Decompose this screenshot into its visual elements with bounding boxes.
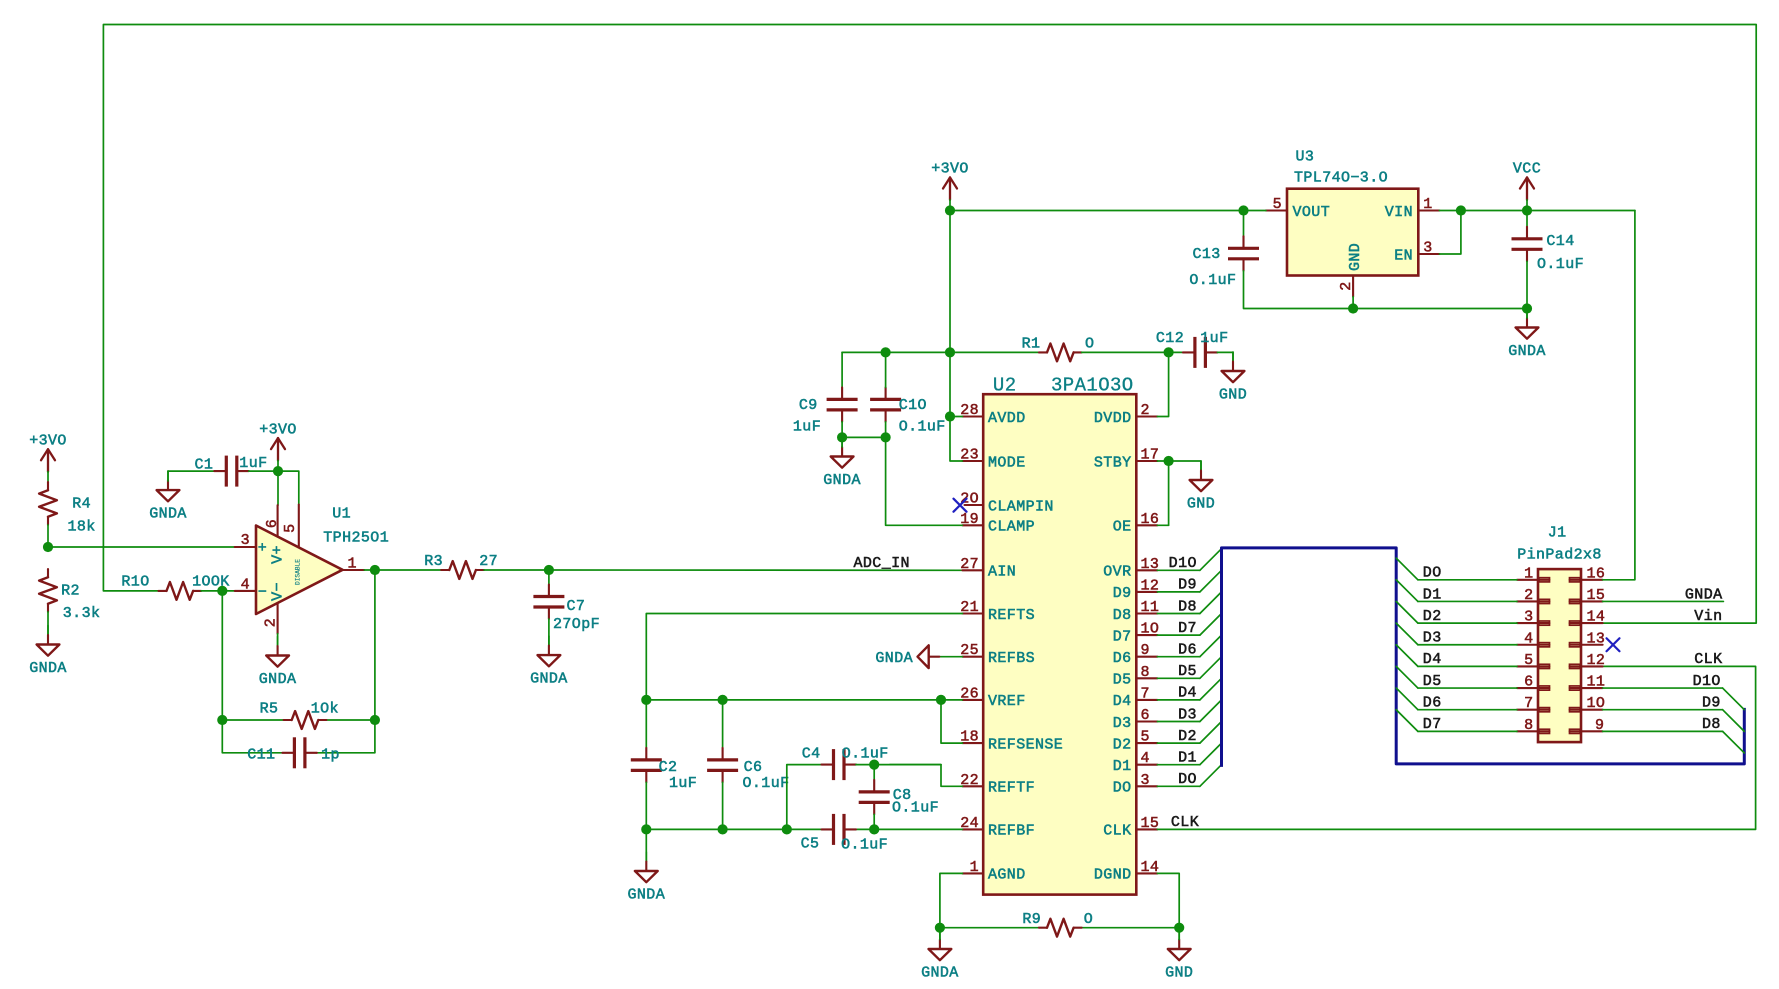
- regulator U3 TPL740-3.0 body: [1287, 148, 1418, 275]
- svg-text:5: 5: [1524, 652, 1533, 669]
- wire +3V0 to VOUT rail: [950, 210, 1266, 212]
- svg-text:16: 16: [1141, 511, 1160, 528]
- svg-text:D8: D8: [1702, 716, 1721, 733]
- wire DVDD drop: [1157, 352, 1168, 416]
- svg-text:R4: R4: [72, 496, 91, 513]
- svg-text:VCC: VCC: [1513, 161, 1541, 178]
- wire VREF wire: [646, 699, 962, 701]
- wire C13 bottom to gnd rail: [1244, 271, 1528, 309]
- ground GNDA (U3): [1508, 309, 1546, 361]
- svg-text:VIN: VIN: [1385, 204, 1413, 221]
- wire D0 from U2: [1157, 785, 1200, 787]
- svg-text:27: 27: [479, 553, 498, 570]
- wire D1 to J1 pin 2: [1418, 600, 1517, 602]
- svg-text:O.1uF: O.1uF: [892, 800, 939, 817]
- U2 pin 17 STBY: [1094, 447, 1159, 472]
- wire R1 right to C12 node: [1082, 351, 1183, 353]
- svg-text:GNDA: GNDA: [530, 671, 568, 688]
- svg-text:1uF: 1uF: [669, 775, 697, 792]
- svg-text:REFSENSE: REFSENSE: [988, 736, 1063, 753]
- bus entry D4 (J1 side): [1396, 645, 1418, 667]
- junction R4/R2 divider node: [43, 542, 53, 552]
- net label D5 (U2 side): [1178, 663, 1197, 680]
- svg-text:2: 2: [1338, 281, 1355, 290]
- no-connect X (U2 CLAMPIN): [954, 499, 967, 512]
- svg-text:TPH25O1: TPH25O1: [323, 530, 389, 547]
- svg-text:REFBF: REFBF: [988, 823, 1035, 840]
- U2 pin 19 CLAMP: [960, 511, 1035, 536]
- U2 pin 5 D2: [1113, 729, 1158, 754]
- ground GNDA (REFBS, left-pointing): [875, 645, 939, 668]
- svg-text:V−: V−: [270, 582, 287, 601]
- svg-text:2: 2: [1141, 402, 1150, 419]
- net label Vin (J1 pin14): [1694, 608, 1722, 625]
- ground GNDA (below C2): [627, 852, 665, 904]
- wire R5 right: [327, 719, 375, 721]
- bus entry D8 (U2 side): [1200, 592, 1222, 614]
- wire C7 top stem: [548, 570, 550, 585]
- wire REFBS wire: [939, 656, 962, 658]
- connector J1 PinPad2x8 body: [1517, 525, 1602, 743]
- junction VIN/EN node: [1456, 205, 1466, 215]
- wire STBY link: [1157, 461, 1201, 471]
- svg-text:J1: J1: [1548, 525, 1567, 542]
- svg-text:REFTS: REFTS: [988, 607, 1035, 624]
- svg-text:6: 6: [1524, 674, 1533, 691]
- svg-text:5: 5: [1141, 729, 1150, 746]
- svg-text:D7: D7: [1178, 620, 1197, 637]
- net label D3 (U2 side): [1178, 706, 1197, 723]
- resistor R9 0: [1022, 911, 1093, 937]
- wire D4 to J1 pin 5: [1418, 665, 1517, 667]
- svg-text:GNDA: GNDA: [259, 671, 297, 688]
- svg-text:−: −: [258, 584, 267, 601]
- U3 pin 3 EN: [1394, 240, 1439, 265]
- svg-text:O: O: [1085, 336, 1094, 353]
- svg-text:CLAMPIN: CLAMPIN: [988, 498, 1054, 515]
- net label D2 (J1 side): [1423, 608, 1442, 625]
- U2 pin 16 OE: [1113, 511, 1160, 536]
- svg-text:DVDD: DVDD: [1094, 410, 1132, 427]
- J1 pin 9: [1570, 717, 1605, 734]
- svg-text:D5: D5: [1113, 672, 1132, 689]
- svg-text:O.1uF: O.1uF: [1537, 256, 1584, 273]
- junction bottom rail at C8: [869, 824, 879, 834]
- U2 pin 1 AGND: [962, 859, 1025, 884]
- wire R9 gnda stem: [939, 928, 941, 940]
- svg-text:REFTF: REFTF: [988, 780, 1035, 797]
- ground GND (STBY/OE): [1187, 461, 1215, 513]
- net label D7 (J1 side): [1423, 716, 1442, 733]
- svg-text:STBY: STBY: [1094, 454, 1132, 471]
- wire AVDD stub link: [950, 416, 962, 418]
- svg-text:3: 3: [1423, 240, 1432, 257]
- ground GND (C12): [1219, 352, 1247, 404]
- svg-text:DO: DO: [1423, 565, 1442, 582]
- net label CLK (J1 pin12): [1694, 651, 1722, 668]
- svg-text:GNDA: GNDA: [1685, 586, 1723, 603]
- bus entry D8 (J1 right): [1723, 731, 1745, 753]
- svg-text:O.1uF: O.1uF: [899, 419, 946, 436]
- wire C1 gnd stem: [167, 471, 169, 481]
- wire AGND wire: [940, 873, 963, 927]
- power +3V0 (R4 top): [29, 433, 67, 483]
- wire D1 from U2: [1157, 764, 1200, 766]
- net label D8 (U2 side): [1178, 598, 1197, 615]
- U2 pin 22 REFTF: [960, 772, 1035, 797]
- net label D5 (J1 side): [1423, 673, 1442, 690]
- svg-text:R1: R1: [1022, 336, 1041, 353]
- wire D7 from U2: [1157, 634, 1200, 636]
- svg-text:+: +: [258, 540, 267, 557]
- svg-text:13: 13: [1141, 556, 1160, 573]
- bus entry D2 (J1 side): [1396, 601, 1418, 623]
- bus D[0..10]: [1222, 548, 1745, 766]
- wire rail down to AVDD: [950, 352, 962, 461]
- junction gnd rail at C14: [1522, 303, 1532, 313]
- J1 pin 14: [1570, 609, 1606, 626]
- capacitor C14 0.1uF: [1512, 227, 1585, 273]
- svg-text:CLAMP: CLAMP: [988, 519, 1035, 536]
- svg-text:GNDA: GNDA: [29, 660, 67, 677]
- wire C9-C10 bottom link: [842, 436, 886, 438]
- junction C12/DVDD node: [1164, 347, 1174, 357]
- J1 pin 2: [1517, 587, 1550, 604]
- wire C8 bottom: [873, 814, 875, 829]
- net label D10 (U2 side): [1169, 555, 1197, 572]
- wire R3 to C7 node: [484, 569, 549, 571]
- ground GNDA (U1 pin2): [259, 637, 297, 689]
- svg-text:C1O: C1O: [899, 397, 927, 414]
- wire rail left down to C9: [841, 352, 843, 387]
- U3 pin 5 VOUT: [1266, 196, 1330, 221]
- svg-text:D1: D1: [1423, 586, 1442, 603]
- svg-text:D6: D6: [1178, 642, 1197, 659]
- wire C7 bottom: [548, 619, 550, 646]
- svg-text:AVDD: AVDD: [988, 410, 1026, 427]
- capacitor C5 0.1uF: [801, 814, 889, 854]
- U2 pin 7 D4: [1113, 685, 1158, 710]
- wire CLAMP wire: [886, 437, 963, 525]
- svg-text:O.1uF: O.1uF: [842, 746, 889, 763]
- svg-text:U1: U1: [332, 505, 351, 522]
- wire C2 gnd stem: [645, 829, 647, 861]
- svg-text:R5: R5: [260, 701, 279, 718]
- svg-text:V+: V+: [270, 545, 287, 564]
- svg-text:4: 4: [241, 576, 250, 593]
- U2 pin 3 D0: [1113, 772, 1158, 797]
- U2 pin 2 DVDD: [1094, 402, 1158, 427]
- junction feedback right node: [370, 715, 380, 725]
- net label ADC_IN: [854, 555, 910, 572]
- svg-text:C5: C5: [801, 836, 820, 853]
- wire J1 pin16 to VCC rail: [1603, 211, 1635, 580]
- svg-text:D2: D2: [1178, 728, 1197, 745]
- wire DGND wire: [1157, 873, 1179, 927]
- net label D4 (U2 side): [1178, 685, 1197, 702]
- junction R9 left node: [935, 923, 945, 933]
- svg-text:D5: D5: [1423, 673, 1442, 690]
- wire C12 right: [1217, 352, 1233, 361]
- svg-text:U2: U2: [993, 375, 1017, 397]
- U2 pin 20 CLAMPIN: [960, 491, 1054, 516]
- bus entry D9 (U2 side): [1200, 570, 1222, 592]
- power VCC: [1513, 161, 1541, 211]
- svg-text:D8: D8: [1113, 607, 1132, 624]
- junction rail at +3V0 drop: [945, 347, 955, 357]
- svg-text:17: 17: [1141, 447, 1160, 464]
- svg-text:O.1uF: O.1uF: [1189, 272, 1236, 289]
- svg-text:R1O: R1O: [121, 574, 149, 591]
- svg-text:R2: R2: [61, 583, 80, 600]
- svg-text:1Ok: 1Ok: [311, 701, 339, 718]
- power +3V0 (U1 V+): [259, 421, 297, 471]
- resistor R10 100K: [121, 574, 229, 600]
- wire C6 bottom: [722, 782, 724, 829]
- net label D0 (J1 side): [1423, 565, 1442, 582]
- svg-text:DO: DO: [1113, 780, 1132, 797]
- wire C14 bottom: [1526, 261, 1528, 308]
- svg-text:GNDA: GNDA: [149, 506, 187, 523]
- bus entry D7 (U2 side): [1200, 614, 1222, 636]
- svg-text:C6: C6: [744, 759, 763, 776]
- op-amp U1 TPH2501: [235, 505, 389, 634]
- wire U1 out to R3: [364, 569, 441, 571]
- net label D4 (J1 side): [1423, 651, 1442, 668]
- IC U2 3PA1030 body: [983, 375, 1136, 895]
- wire C14 top stem: [1526, 211, 1528, 227]
- junction VREF at C2: [641, 695, 651, 705]
- wire D8 from U2: [1157, 613, 1200, 615]
- resistor R3 27: [424, 553, 498, 579]
- wire J1 pin15 GNDA stub: [1603, 600, 1724, 602]
- wire D2 from U2: [1157, 742, 1200, 744]
- svg-text:EN: EN: [1394, 247, 1413, 264]
- svg-text:+3VO: +3VO: [259, 421, 297, 438]
- svg-text:1uF: 1uF: [239, 455, 267, 472]
- svg-text:5: 5: [282, 523, 299, 532]
- J1 pin 16: [1570, 565, 1606, 582]
- svg-text:+3VO: +3VO: [931, 161, 969, 178]
- svg-text:D3: D3: [1113, 715, 1132, 732]
- svg-text:C1: C1: [194, 456, 213, 473]
- J1 pin 6: [1517, 674, 1550, 691]
- svg-text:18k: 18k: [67, 519, 95, 536]
- svg-text:8: 8: [1141, 664, 1150, 681]
- capacitor C1 1uF: [194, 455, 267, 487]
- capacitor C2 1uF: [631, 748, 697, 792]
- junction C9 gnd node: [837, 432, 847, 442]
- junction +3V0/VOUT node: [945, 205, 955, 215]
- wire C9 bottom: [841, 422, 843, 438]
- svg-text:1: 1: [1524, 565, 1533, 582]
- svg-text:O.1uF: O.1uF: [742, 775, 789, 792]
- wire J1 pin11 D10 wire: [1603, 687, 1723, 689]
- capacitor C6 0.1uF: [707, 748, 789, 792]
- svg-text:3: 3: [1141, 772, 1150, 789]
- wire C13 top stem: [1243, 211, 1245, 237]
- resistor R1 0: [1022, 336, 1095, 362]
- U2 pin 27 AIN: [960, 556, 1016, 581]
- bus entry D1 (J1 side): [1396, 580, 1418, 602]
- svg-text:VREF: VREF: [988, 693, 1026, 710]
- svg-text:OE: OE: [1113, 519, 1132, 536]
- svg-text:15: 15: [1141, 815, 1160, 832]
- wire REFSENSE wire: [941, 700, 962, 743]
- wire J1 pin10 D9 wire: [1603, 709, 1723, 711]
- wire EN riser: [1439, 211, 1461, 255]
- svg-text:DGND: DGND: [1094, 867, 1132, 884]
- wire D0 to J1 pin 1: [1418, 579, 1517, 581]
- net label D9 (U2 side): [1178, 577, 1197, 594]
- power +3V0 (U2 rail): [931, 161, 969, 211]
- wire inverting node down: [222, 591, 282, 753]
- svg-text:1uF: 1uF: [1200, 330, 1228, 347]
- svg-text:8: 8: [1524, 717, 1533, 734]
- wire R2 bottom: [47, 612, 49, 635]
- svg-text:2: 2: [263, 618, 280, 627]
- wire VIN wire: [1439, 210, 1635, 212]
- svg-text:1p: 1p: [321, 746, 340, 763]
- svg-text:REFBS: REFBS: [988, 650, 1035, 667]
- svg-text:12: 12: [1587, 652, 1606, 669]
- capacitor C9 1uF: [793, 387, 858, 435]
- svg-text:1uF: 1uF: [793, 419, 821, 436]
- U2 pin 28 AVDD: [960, 402, 1025, 427]
- bus entry D5 (J1 side): [1396, 666, 1418, 688]
- svg-text:AGND: AGND: [988, 867, 1026, 884]
- svg-text:O: O: [1084, 911, 1093, 928]
- svg-text:O.1uF: O.1uF: [841, 837, 888, 854]
- svg-text:3PA1O3O: 3PA1O3O: [1051, 375, 1134, 397]
- junction bottom rail at C6: [718, 824, 728, 834]
- svg-text:5: 5: [1273, 196, 1282, 213]
- wire REFTF wire: [890, 765, 963, 787]
- svg-text:D3: D3: [1423, 630, 1442, 647]
- U2 pin 15 CLK: [1103, 815, 1159, 840]
- wire C1 left to GNDA: [168, 470, 214, 472]
- bus entry D3 (J1 side): [1396, 623, 1418, 645]
- wire J1 pin9 D8 wire: [1603, 730, 1723, 732]
- svg-text:D2: D2: [1113, 736, 1132, 753]
- junction C4/C8 node: [869, 760, 879, 770]
- wire C6 top stem: [722, 700, 724, 748]
- svg-text:D4: D4: [1178, 685, 1197, 702]
- net label D6 (U2 side): [1178, 642, 1197, 659]
- junction feedback left node: [217, 715, 227, 725]
- svg-text:GND: GND: [1165, 965, 1193, 982]
- junction VOUT/C13 node: [1238, 205, 1248, 215]
- svg-text:9: 9: [1141, 642, 1150, 659]
- wire CLK wire: [1157, 666, 1755, 829]
- bus entry D2 (U2 side): [1200, 722, 1222, 744]
- U2 pin 11 D8: [1113, 599, 1160, 624]
- net label D2 (U2 side): [1178, 728, 1197, 745]
- wire node down to U1 pin6: [277, 471, 279, 505]
- junction STBY/OE node: [1164, 456, 1174, 466]
- U2 pin 23 MODE: [960, 447, 1025, 472]
- svg-text:+3VO: +3VO: [29, 433, 67, 450]
- J1 pin 4: [1517, 630, 1550, 647]
- svg-text:D1: D1: [1113, 758, 1132, 775]
- J1 pin 15: [1570, 587, 1606, 604]
- svg-text:7: 7: [1141, 685, 1150, 702]
- J1 pin 1: [1517, 565, 1550, 582]
- svg-text:C14: C14: [1546, 233, 1574, 250]
- bus entry D5 (U2 side): [1200, 657, 1222, 679]
- wire C8 top stem: [873, 765, 875, 780]
- capacitor C12 1uF: [1156, 330, 1229, 368]
- svg-text:U3: U3: [1295, 148, 1314, 165]
- net label D9 (J1 pin10): [1702, 695, 1721, 712]
- U2 pin 26 VREF: [960, 685, 1025, 710]
- svg-text:R3: R3: [424, 553, 443, 570]
- net label GNDA (J1 pin15): [1685, 586, 1723, 603]
- wire divider node to U1 pin3: [48, 546, 235, 548]
- svg-text:GND: GND: [1187, 496, 1215, 513]
- wire U1 pin2 down: [277, 634, 279, 646]
- U2 pin 21 REFTS: [960, 599, 1035, 624]
- wire D10 from U2: [1157, 569, 1200, 571]
- junction bottom rail at C2: [641, 824, 651, 834]
- svg-text:D9: D9: [1113, 585, 1132, 602]
- svg-text:D1O: D1O: [1169, 555, 1197, 572]
- junction bottom rail at C4 riser: [782, 824, 792, 834]
- capacitor C11 1p: [247, 737, 340, 768]
- svg-text:27OpF: 27OpF: [553, 616, 600, 633]
- J1 pin 13: [1570, 630, 1606, 647]
- resistor R2 3.3k: [39, 569, 100, 622]
- U2 pin 4 D1: [1113, 750, 1158, 775]
- wire D7 to J1 pin 8: [1418, 730, 1517, 732]
- net label CLK (U2): [1171, 814, 1199, 831]
- J1 pin 11: [1570, 674, 1606, 691]
- svg-text:GNDA: GNDA: [921, 965, 959, 982]
- bus entry D10 (U2 side): [1200, 549, 1222, 571]
- svg-text:D4: D4: [1113, 693, 1132, 710]
- wire D9 from U2: [1157, 591, 1200, 593]
- svg-text:D3: D3: [1178, 706, 1197, 723]
- J1 pin 10: [1570, 695, 1606, 712]
- wire D4 from U2: [1157, 699, 1200, 701]
- svg-text:OVR: OVR: [1103, 564, 1131, 581]
- svg-text:GND: GND: [1219, 387, 1247, 404]
- wire C1 right to +3V0 node: [249, 470, 278, 472]
- svg-text:D9: D9: [1702, 695, 1721, 712]
- net label D8 (J1 pin9): [1702, 716, 1721, 733]
- wire +3V0 down to rail: [949, 211, 951, 353]
- svg-text:3: 3: [1524, 609, 1533, 626]
- svg-text:CLK: CLK: [1103, 823, 1131, 840]
- svg-text:Vin: Vin: [1694, 608, 1722, 625]
- svg-text:2O: 2O: [960, 491, 979, 508]
- bus entry D6 (J1 side): [1396, 688, 1418, 710]
- J1 pin 3: [1517, 609, 1550, 626]
- bus entry D0 (U2 side): [1200, 765, 1222, 787]
- svg-text:12: 12: [1141, 577, 1160, 594]
- wire node to U1 pin5 riser: [278, 471, 299, 505]
- resistor R5 10k: [260, 701, 339, 729]
- svg-text:4: 4: [1524, 630, 1533, 647]
- net label D10 (J1 pin11): [1693, 673, 1721, 690]
- J1 pin 5: [1517, 652, 1550, 669]
- svg-text:D4: D4: [1423, 651, 1442, 668]
- wire avdd rail: [842, 351, 1039, 353]
- svg-text:VOUT: VOUT: [1293, 204, 1331, 221]
- ground GND (below R9 right): [1165, 930, 1193, 982]
- wire REFTS wire: [646, 614, 962, 700]
- svg-text:C11: C11: [247, 746, 275, 763]
